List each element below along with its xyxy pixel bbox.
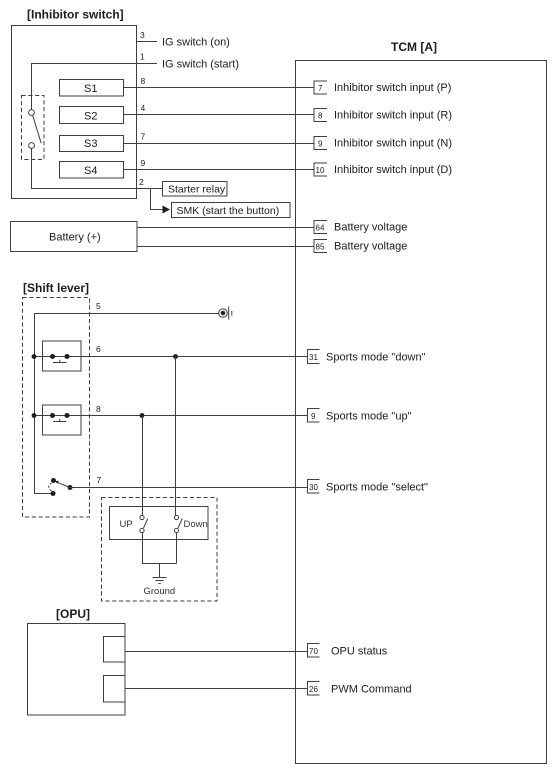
junction wire8-up bbox=[140, 413, 145, 418]
TCM pin 9 bracket bbox=[314, 137, 327, 150]
UP switch lower wire bbox=[142, 533, 144, 564]
ground symbol bbox=[153, 578, 167, 584]
svg-text:PWM Command: PWM Command bbox=[331, 684, 412, 696]
svg-text:[Shift lever]: [Shift lever] bbox=[23, 281, 89, 295]
svg-text:7: 7 bbox=[97, 475, 102, 485]
junction bus-wire6 bbox=[32, 354, 37, 359]
svg-text:Ground: Ground bbox=[144, 586, 176, 597]
selector contact bottom bbox=[29, 143, 35, 149]
selector contact top bbox=[29, 110, 35, 116]
wire pin 5 bbox=[34, 313, 219, 315]
svg-text:70: 70 bbox=[309, 647, 318, 656]
wire battery to pin 64 bbox=[137, 227, 314, 229]
Down switch lower wire bbox=[176, 533, 178, 564]
svg-text:5: 5 bbox=[96, 301, 101, 311]
wire OPU to TCM pin 26 bbox=[125, 688, 308, 690]
wire down to UP switch bbox=[142, 416, 144, 516]
svg-text:OPU status: OPU status bbox=[331, 646, 388, 658]
svg-text:9: 9 bbox=[141, 158, 146, 168]
svg-text:2: 2 bbox=[139, 177, 144, 187]
TCM box bbox=[296, 61, 547, 764]
TCM pin 9 sports bracket bbox=[308, 409, 320, 423]
svg-text:Battery voltage: Battery voltage bbox=[334, 241, 407, 253]
wire pin 1 bbox=[32, 64, 158, 110]
svg-text:S4: S4 bbox=[84, 165, 97, 177]
svg-text:4: 4 bbox=[141, 103, 146, 113]
wire pin 7 to TCM pin 30 bbox=[70, 487, 308, 489]
inhibitor switch box bbox=[12, 26, 137, 199]
svg-text:Sports mode "up": Sports mode "up" bbox=[326, 411, 412, 423]
svg-text:7: 7 bbox=[318, 84, 323, 93]
wire OPU to TCM pin 70 bbox=[125, 651, 308, 653]
svg-text:UP: UP bbox=[120, 519, 133, 530]
wire battery to pin 85 bbox=[137, 246, 314, 248]
contact bar wire 6 bbox=[53, 360, 67, 363]
contact switch box up bbox=[43, 405, 82, 435]
TCM pin 7 bracket bbox=[314, 81, 327, 94]
wire pin 6 to TCM pin 31 bbox=[34, 356, 308, 358]
svg-text:Inhibitor switch input (P): Inhibitor switch input (P) bbox=[334, 82, 451, 94]
starter relay box bbox=[163, 182, 228, 197]
svg-text:TCM [A]: TCM [A] bbox=[391, 40, 437, 54]
svg-text:Battery voltage: Battery voltage bbox=[334, 222, 407, 234]
svg-text:6: 6 bbox=[96, 344, 101, 354]
wire branch to SMK bbox=[151, 189, 163, 210]
ground joining wire bbox=[142, 563, 177, 565]
wire S1 to TCM pin 7 bbox=[123, 87, 314, 89]
box S4 bbox=[60, 162, 124, 179]
Down switch contacts bbox=[174, 515, 178, 519]
svg-text:Inhibitor switch input (R): Inhibitor switch input (R) bbox=[334, 110, 452, 122]
ground stem bbox=[159, 564, 161, 578]
svg-text:85: 85 bbox=[316, 243, 325, 252]
svg-text:30: 30 bbox=[309, 483, 318, 492]
TCM pin 10 bracket bbox=[314, 163, 327, 176]
svg-text:10: 10 bbox=[316, 166, 325, 175]
svg-text:Sports mode "select": Sports mode "select" bbox=[326, 482, 428, 494]
junction bus-wire8 bbox=[32, 413, 37, 418]
svg-text:IG switch (start): IG switch (start) bbox=[162, 59, 239, 71]
svg-text:[OPU]: [OPU] bbox=[56, 607, 90, 621]
selector lever bbox=[33, 115, 42, 143]
svg-text:Inhibitor switch input (D): Inhibitor switch input (D) bbox=[334, 164, 452, 176]
contact dots wire 6 bbox=[50, 354, 55, 359]
svg-text:S2: S2 bbox=[84, 111, 97, 123]
TCM pin 30 bracket bbox=[308, 480, 320, 494]
select switch lever arrow bbox=[55, 481, 59, 484]
shift lever left bus wire bbox=[34, 314, 36, 494]
updown dashed box bbox=[102, 498, 218, 602]
wire down to Down switch bbox=[175, 357, 177, 516]
contact bar wire 8 bbox=[53, 419, 67, 422]
box S1 bbox=[60, 80, 124, 97]
wire S2 to TCM pin 8 bbox=[123, 114, 314, 116]
SMK box bbox=[172, 203, 291, 218]
svg-text:9: 9 bbox=[318, 140, 323, 149]
svg-text:8: 8 bbox=[96, 404, 101, 414]
TCM pin 70 bracket bbox=[308, 644, 320, 658]
UP switch contacts bbox=[140, 515, 144, 519]
updown solid box bbox=[110, 507, 209, 540]
contact dots wire 8 bbox=[50, 413, 55, 418]
wire selector to starter relay bbox=[32, 149, 163, 189]
contact switch box down bbox=[43, 341, 82, 371]
OPU connector 2 bbox=[104, 676, 126, 703]
svg-text:[Inhibitor switch]: [Inhibitor switch] bbox=[27, 8, 124, 22]
svg-text:9: 9 bbox=[311, 412, 316, 421]
svg-text:Sports mode "down": Sports mode "down" bbox=[326, 352, 426, 364]
svg-text:8: 8 bbox=[141, 76, 146, 86]
svg-text:S3: S3 bbox=[84, 138, 97, 150]
TCM pin 31 bracket bbox=[308, 350, 320, 364]
box S2 bbox=[60, 107, 124, 124]
svg-text:IG switch (on): IG switch (on) bbox=[162, 37, 230, 49]
arrow to SMK bbox=[163, 206, 171, 214]
svg-text:31: 31 bbox=[309, 353, 318, 362]
svg-text:7: 7 bbox=[141, 132, 146, 142]
svg-text:1: 1 bbox=[140, 52, 145, 62]
TCM pin 26 bracket bbox=[308, 682, 320, 696]
OPU box bbox=[28, 624, 126, 716]
TCM pin 64 bracket bbox=[314, 221, 327, 234]
select switch contacts bbox=[51, 491, 56, 496]
junction wire6-down bbox=[173, 354, 178, 359]
dashed selector switch box bbox=[22, 96, 45, 160]
svg-text:8: 8 bbox=[318, 112, 323, 121]
UP switch lever bbox=[144, 519, 148, 529]
svg-text:S1: S1 bbox=[84, 83, 97, 95]
OPU connector 1 bbox=[104, 637, 126, 663]
svg-text:Inhibitor switch input (N): Inhibitor switch input (N) bbox=[334, 138, 452, 150]
wire pin 8 to TCM pin 9 bbox=[34, 415, 308, 417]
select switch stub bbox=[34, 493, 52, 495]
Down switch lever bbox=[178, 519, 182, 529]
battery box bbox=[11, 222, 138, 252]
select switch dashed arc bbox=[49, 483, 52, 491]
TCM pin 8 bracket bbox=[314, 109, 327, 122]
wire S4 to TCM pin 10 bbox=[124, 169, 315, 171]
wire S3 to TCM pin 9 bbox=[123, 143, 314, 145]
power supply symbol bbox=[219, 309, 228, 318]
wire pin 3 stub bbox=[137, 41, 158, 43]
svg-text:3: 3 bbox=[140, 30, 145, 40]
TCM pin 85 bracket bbox=[314, 240, 327, 253]
svg-text:SMK (start the button): SMK (start the button) bbox=[177, 205, 280, 217]
svg-text:26: 26 bbox=[309, 685, 318, 694]
select switch lever bbox=[57, 482, 70, 487]
box S3 bbox=[60, 136, 124, 152]
svg-text:64: 64 bbox=[316, 224, 325, 233]
svg-text:Starter relay: Starter relay bbox=[168, 184, 226, 196]
svg-text:Battery (+): Battery (+) bbox=[49, 232, 101, 244]
svg-text:Down: Down bbox=[184, 519, 208, 530]
shift lever dashed box bbox=[23, 298, 90, 518]
